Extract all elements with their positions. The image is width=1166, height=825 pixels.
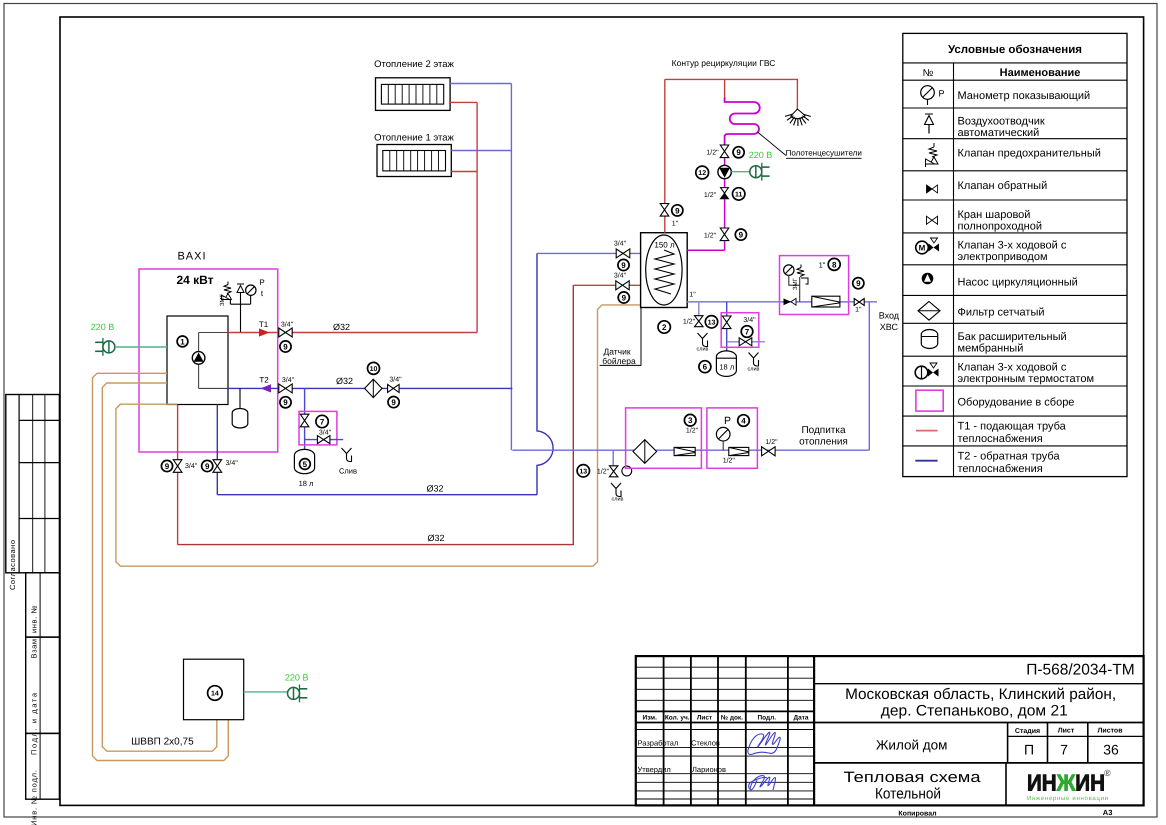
label 1 xbc out bbox=[855, 307, 862, 314]
label 1/2 check11 bbox=[704, 191, 717, 199]
filter box3 bbox=[633, 440, 657, 464]
svg-text:Т2 - обратная труба: Т2 - обратная труба bbox=[958, 451, 1061, 463]
node 13 podpitka bbox=[577, 465, 589, 477]
pipe drop to box7b bbox=[726, 302, 728, 351]
node 8 bbox=[828, 258, 840, 270]
wire rad2 supply red bbox=[450, 101, 477, 103]
svg-text:9: 9 bbox=[165, 462, 170, 471]
svg-text:9: 9 bbox=[739, 231, 744, 240]
node 6 bbox=[699, 361, 711, 373]
svg-text:1/2": 1/2" bbox=[706, 149, 719, 157]
coil in tank bbox=[655, 250, 674, 294]
svg-text:9: 9 bbox=[283, 342, 288, 351]
node 9 coil v1 bbox=[733, 147, 744, 158]
svg-text:150 л: 150 л bbox=[654, 241, 675, 250]
svg-text:7: 7 bbox=[745, 327, 750, 336]
svg-text:Подпитка: Подпитка bbox=[801, 425, 846, 436]
svg-text:полнопроходной: полнопроходной bbox=[958, 221, 1043, 233]
legend text 3-х ходовой электропривод bbox=[958, 240, 1067, 264]
svg-text:Фильтр сетчатый: Фильтр сетчатый bbox=[958, 307, 1045, 319]
valve after filter bbox=[388, 384, 400, 392]
svg-text:Манометр показывающий: Манометр показывающий bbox=[958, 90, 1091, 102]
label 3/4 T1 bbox=[281, 321, 294, 329]
legend table grid bbox=[903, 33, 1127, 476]
logo ИНЖИН bbox=[1027, 768, 1111, 802]
label 220 В controller bbox=[285, 673, 309, 683]
svg-text:9: 9 bbox=[391, 398, 396, 407]
svg-text:Взам. инв. №: Взам. инв. № bbox=[30, 606, 39, 659]
title П 7 36 bbox=[1024, 742, 1119, 758]
legend symbol бак bbox=[921, 329, 937, 348]
label 1/2 coil v1 bbox=[706, 149, 719, 157]
svg-text:Полотенцесушители: Полотенцесушители bbox=[786, 149, 862, 158]
check valve box8 bbox=[784, 298, 797, 305]
legend symbol обратный bbox=[927, 185, 938, 193]
svg-text:BAXI: BAXI bbox=[177, 251, 206, 263]
svg-text:1": 1" bbox=[855, 307, 862, 314]
pipe Ø32 blue bottom bbox=[217, 494, 537, 496]
title Стадия Лист Листов bbox=[1015, 728, 1123, 736]
pipe red to coil bbox=[724, 79, 726, 99]
legend symbol Т1 line bbox=[916, 430, 938, 432]
svg-text:3/4": 3/4" bbox=[226, 459, 239, 467]
pipe red drop bbox=[177, 405, 179, 545]
svg-text:Утвердил: Утвердил bbox=[638, 765, 671, 774]
pipe tank inlet blue bbox=[537, 252, 641, 254]
valve tank blue bbox=[616, 249, 630, 258]
label Слив box7a bbox=[339, 467, 357, 476]
svg-text:12: 12 bbox=[698, 170, 706, 177]
node 1 bbox=[177, 336, 188, 347]
stamp label Инв. № подл. bbox=[30, 770, 39, 825]
meter box4 bbox=[729, 447, 749, 455]
label 220 В boiler bbox=[91, 322, 115, 332]
legend text шаровой bbox=[958, 209, 1043, 233]
boiler internal pipe bbox=[199, 333, 228, 389]
towel dryer coil bbox=[725, 98, 760, 147]
legend symbol насос bbox=[922, 273, 934, 285]
wire rad2 return blue bbox=[450, 83, 511, 85]
svg-text:Стеклов: Стеклов bbox=[691, 739, 720, 748]
svg-text:Кран шаровой: Кран шаровой bbox=[958, 209, 1031, 221]
pipe tank inlet red bbox=[573, 284, 640, 286]
svg-text:Ларионов: Ларионов bbox=[692, 765, 726, 774]
svg-text:9: 9 bbox=[621, 261, 626, 270]
svg-text:13: 13 bbox=[708, 319, 716, 326]
svg-text:2: 2 bbox=[662, 323, 667, 332]
label 3/4 blue drop bbox=[226, 459, 239, 467]
meter box8 bbox=[812, 296, 840, 307]
label 220 В pump12 bbox=[749, 150, 773, 160]
label 3/4 tank red bbox=[614, 272, 627, 280]
svg-text:Клапан 3-х ходовой с: Клапан 3-х ходовой с bbox=[958, 362, 1067, 374]
svg-text:Наименование: Наименование bbox=[1000, 67, 1081, 79]
legend text насос bbox=[958, 277, 1078, 289]
safety valve on boiler bbox=[222, 282, 232, 300]
title Разработал bbox=[638, 739, 720, 748]
wire rad1 return blue bbox=[451, 150, 511, 152]
pipe coil down magenta bbox=[687, 146, 724, 250]
svg-text:Ø32: Ø32 bbox=[333, 322, 350, 332]
node 9 xbc out bbox=[853, 278, 864, 289]
label 1 box8 bbox=[819, 261, 826, 270]
svg-text:Дата: Дата bbox=[793, 715, 808, 722]
svg-text:Ø32: Ø32 bbox=[336, 376, 353, 386]
svg-text:220 В: 220 В bbox=[285, 673, 309, 683]
node 11 bbox=[733, 188, 745, 200]
svg-text:слив: слив bbox=[748, 367, 760, 373]
shower head symbol bbox=[785, 109, 811, 126]
svg-text:Инв. № подл.: Инв. № подл. bbox=[30, 770, 39, 825]
svg-text:Ø32: Ø32 bbox=[426, 484, 443, 494]
label 150 л bbox=[654, 241, 675, 250]
legend text бак bbox=[958, 331, 1067, 355]
node 13 xbc bbox=[705, 316, 717, 328]
filter 10 diamond bbox=[365, 379, 382, 397]
node 9 coil v2 bbox=[735, 229, 746, 240]
svg-text:3/4": 3/4" bbox=[389, 376, 402, 384]
pipe branch to tank5 bbox=[304, 388, 306, 449]
svg-text:Подл. и дата: Подл. и дата bbox=[30, 692, 39, 755]
wire riser supply red bbox=[476, 102, 478, 332]
svg-text:Изм.: Изм. bbox=[643, 715, 658, 722]
legend text 3-х ходовой термостат bbox=[958, 362, 1095, 386]
valve 9 coil lower bbox=[720, 228, 729, 241]
svg-text:5: 5 bbox=[303, 460, 308, 469]
label 3/4 after filter bbox=[389, 376, 402, 384]
svg-text:Листов: Листов bbox=[1097, 728, 1123, 735]
node 14 bbox=[208, 686, 223, 701]
svg-text:ЗМГ: ЗМГ bbox=[219, 293, 226, 306]
arrow T1 bbox=[259, 328, 270, 336]
valve drain box7b bbox=[739, 338, 752, 346]
legend text предохранительный bbox=[958, 148, 1101, 160]
svg-text:Р: Р bbox=[938, 89, 944, 99]
legend col № bbox=[923, 68, 934, 79]
svg-text:1": 1" bbox=[819, 261, 826, 270]
valve xbc out bbox=[854, 299, 864, 306]
svg-text:9: 9 bbox=[205, 462, 210, 471]
equipment box 3 bbox=[626, 408, 702, 468]
svg-text:Отопление 1 этаж: Отопление 1 этаж bbox=[374, 133, 454, 144]
svg-text:1": 1" bbox=[672, 221, 679, 228]
svg-text:3/4": 3/4" bbox=[282, 376, 295, 384]
valve drain box7a bbox=[317, 436, 330, 444]
label Подпитка отопления bbox=[799, 425, 848, 448]
svg-text:дер. Степаньково, дом 21: дер. Степаньково, дом 21 bbox=[881, 703, 1068, 720]
svg-text:7: 7 bbox=[1060, 742, 1068, 758]
node 7a bbox=[316, 415, 328, 427]
valve T1 bbox=[279, 328, 292, 337]
svg-text:М: М bbox=[919, 244, 926, 253]
pipe red riser gvs bbox=[664, 79, 666, 232]
legend symbol 3-х ходовой электропривод bbox=[916, 238, 939, 254]
svg-text:Клапан обратный: Клапан обратный bbox=[958, 180, 1048, 192]
valve in box7a bbox=[300, 414, 309, 427]
svg-text:1/2": 1/2" bbox=[686, 427, 699, 435]
label 1/2 podpitka valve bbox=[765, 438, 778, 446]
svg-text:Р: Р bbox=[259, 278, 264, 287]
signature 1 bbox=[748, 732, 780, 754]
title address line1 bbox=[845, 686, 1116, 703]
node 7b bbox=[741, 326, 753, 338]
svg-text:1: 1 bbox=[180, 337, 185, 346]
svg-text:Т1: Т1 bbox=[259, 320, 269, 329]
svg-text:1/2": 1/2" bbox=[597, 468, 610, 476]
label Копировал bbox=[898, 811, 936, 818]
label 3/4 red drop bbox=[185, 462, 198, 470]
legend symbol шаровой bbox=[927, 216, 938, 224]
title header row labels bbox=[643, 715, 809, 722]
label Контур рециркуляции ГВС bbox=[672, 58, 776, 68]
svg-text:электроприводом: электроприводом bbox=[958, 251, 1048, 263]
valve 13 drain bbox=[695, 316, 704, 327]
svg-text:Вход: Вход bbox=[879, 311, 900, 321]
label 1/2 coil v2 bbox=[704, 232, 717, 240]
svg-text:P: P bbox=[724, 415, 731, 427]
legend symbol предохранительный bbox=[926, 143, 939, 167]
title block grid bbox=[636, 656, 1144, 805]
svg-text:Клапан 3-х ходовой с: Клапан 3-х ходовой с bbox=[958, 240, 1067, 252]
svg-text:7: 7 bbox=[320, 417, 325, 426]
svg-text:Насос циркуляционный: Насос циркуляционный bbox=[958, 277, 1078, 289]
svg-text:1/2": 1/2" bbox=[683, 318, 696, 326]
svg-text:Контур рециркуляции ГВС: Контур рециркуляции ГВС bbox=[672, 58, 776, 68]
equipment box 7b bbox=[721, 313, 759, 348]
label 1/2 drain13 bbox=[683, 318, 696, 326]
svg-text:Лист: Лист bbox=[1058, 728, 1075, 735]
svg-text:бойлера: бойлера bbox=[602, 356, 636, 366]
label Ø32 T1 bbox=[333, 322, 350, 332]
svg-text:14: 14 bbox=[211, 691, 219, 698]
svg-text:Стадия: Стадия bbox=[1015, 728, 1040, 735]
label 3/4 tank blue bbox=[614, 240, 627, 248]
plug 220V pump12 bbox=[750, 163, 770, 181]
boiler expansion vessel bbox=[232, 388, 248, 428]
wire rad1 supply red bbox=[451, 171, 477, 173]
controller box 14 bbox=[184, 659, 244, 720]
svg-text:Бак расширительный: Бак расширительный bbox=[958, 331, 1067, 343]
node 9 red drop bbox=[161, 460, 172, 471]
node 9 tank blue bbox=[618, 259, 629, 270]
svg-text:Подл.: Подл. bbox=[757, 715, 776, 722]
label P t bbox=[259, 278, 264, 298]
node 9 red riser bbox=[672, 205, 683, 216]
label А3 bbox=[1103, 808, 1113, 817]
drain симв box7a bbox=[342, 448, 352, 462]
legend symbol 3-х ходовой термостат bbox=[915, 363, 938, 379]
label Датчик бойлера bbox=[600, 308, 642, 366]
wire cable B tan bbox=[102, 383, 217, 751]
pipe gvs top bbox=[665, 79, 798, 109]
legend symbol воздухоотводчик bbox=[925, 114, 934, 134]
svg-text:слив: слив bbox=[612, 497, 624, 503]
svg-text:Кол. уч.: Кол. уч. bbox=[665, 715, 690, 722]
svg-text:Лист: Лист bbox=[697, 715, 712, 722]
pipe ХВС bbox=[687, 301, 877, 303]
svg-text:8: 8 bbox=[832, 260, 837, 269]
svg-text:Отопление 2 этаж: Отопление 2 этаж bbox=[374, 59, 454, 70]
label 1/2 box3 bbox=[686, 427, 699, 435]
label Т2 bbox=[259, 376, 269, 385]
svg-text:мембранный: мембранный bbox=[958, 343, 1024, 355]
plug 220V controller bbox=[288, 685, 308, 703]
node 10 bbox=[368, 362, 380, 374]
node 9 blue drop bbox=[202, 460, 213, 471]
label P box4 bbox=[724, 415, 731, 427]
svg-text:Копировал: Копировал bbox=[898, 811, 936, 818]
title address line2 bbox=[881, 703, 1068, 720]
svg-text:18 л: 18 л bbox=[719, 363, 734, 372]
pipe podpitka bbox=[512, 449, 869, 451]
tank 150л body bbox=[641, 233, 688, 308]
svg-text:Воздухоотводчик: Воздухоотводчик bbox=[958, 116, 1045, 128]
label Ø32 T2 bbox=[336, 376, 353, 386]
title П-568/2034-ТМ bbox=[1026, 662, 1135, 679]
svg-text:теплоснабжения: теплоснабжения bbox=[958, 433, 1043, 445]
svg-text:9: 9 bbox=[283, 398, 288, 407]
svg-text:Разработал: Разработал bbox=[638, 739, 679, 748]
legend col Наименование bbox=[1000, 67, 1081, 79]
node 9 tank red bbox=[618, 292, 629, 303]
svg-text:3/4": 3/4" bbox=[743, 316, 756, 324]
boiler U1 body bbox=[167, 316, 228, 405]
signature 2 bbox=[749, 776, 776, 790]
svg-text:3/4": 3/4" bbox=[614, 240, 627, 248]
valve 13b bbox=[609, 466, 618, 477]
legend text обратный bbox=[958, 180, 1048, 192]
svg-text:18 л: 18 л bbox=[299, 479, 314, 488]
label 24 кВт bbox=[176, 273, 213, 287]
node 2 bbox=[658, 321, 670, 333]
legend text фильтр bbox=[958, 307, 1045, 319]
node 4 bbox=[738, 415, 750, 427]
pipe drain box7b bbox=[727, 341, 765, 343]
wire cable A tan bbox=[93, 373, 229, 760]
svg-text:1/2": 1/2" bbox=[704, 232, 717, 240]
legend symbol Т2 line bbox=[915, 460, 937, 462]
plug 220V boiler bbox=[95, 338, 115, 356]
pump in boiler bbox=[192, 352, 205, 365]
label 1/2 box4 bbox=[723, 457, 736, 465]
label Отопление 1 этаж bbox=[374, 133, 454, 144]
label 18 л tank5 bbox=[299, 479, 314, 488]
legend text Т1 bbox=[958, 421, 1067, 446]
svg-text:Московская область, Клинский р: Московская область, Клинский район, bbox=[845, 686, 1116, 703]
tank 18л xbc bbox=[716, 351, 736, 377]
svg-text:3/4": 3/4" bbox=[185, 462, 198, 470]
svg-text:11: 11 bbox=[735, 191, 743, 198]
wire 220V boiler bbox=[115, 346, 167, 348]
svg-text:ХВС: ХВС bbox=[880, 322, 899, 332]
legend text воздухоотводчик bbox=[958, 116, 1045, 140]
svg-text:автоматический: автоматический bbox=[958, 127, 1040, 139]
pipe drop to drain13 bbox=[698, 302, 700, 317]
svg-text:А3: А3 bbox=[1103, 808, 1113, 817]
svg-text:П: П bbox=[1024, 742, 1034, 758]
svg-text:Датчик: Датчик bbox=[603, 347, 630, 357]
valve blue drop bbox=[213, 460, 222, 473]
svg-text:П-568/2034-ТМ: П-568/2034-ТМ bbox=[1026, 662, 1135, 679]
equipment box 4 bbox=[707, 408, 758, 468]
radiator Отопление 2 этаж bbox=[376, 78, 451, 111]
pipe T2 blue bbox=[228, 387, 512, 389]
label 3/4 box7a bbox=[319, 429, 332, 437]
label 1 red riser bbox=[672, 221, 679, 228]
svg-text:Ø32: Ø32 bbox=[427, 533, 444, 543]
wire 220V controller bbox=[244, 691, 288, 693]
svg-text:ЗМГ: ЗМГ bbox=[792, 277, 799, 290]
svg-text:4: 4 bbox=[741, 416, 746, 425]
svg-text:1/2": 1/2" bbox=[704, 191, 717, 199]
label BAXI bbox=[177, 251, 206, 263]
label 3/4 box7b bbox=[743, 316, 756, 324]
legend header bbox=[948, 44, 1082, 56]
legend symbol фильтр bbox=[918, 302, 940, 321]
title Тепловая схема bbox=[844, 769, 982, 803]
svg-text:Условные обозначения: Условные обозначения bbox=[948, 44, 1082, 56]
label 1 tank out bbox=[689, 292, 696, 299]
callout line полотенцесушители bbox=[758, 132, 787, 156]
pipe podpitka riser bbox=[868, 302, 870, 450]
svg-text:Инженерные инновации: Инженерные инновации bbox=[1027, 795, 1108, 802]
svg-text:3/4": 3/4" bbox=[614, 272, 627, 280]
title Жилой дом bbox=[876, 738, 948, 753]
svg-text:Жилой дом: Жилой дом bbox=[876, 738, 948, 753]
svg-text:3/4": 3/4" bbox=[281, 321, 294, 329]
node 3 bbox=[684, 414, 696, 426]
svg-text:3: 3 bbox=[688, 416, 693, 425]
svg-text:10: 10 bbox=[370, 366, 378, 373]
label Ø32 blue bottom bbox=[426, 484, 443, 494]
pipe drain box7a bbox=[305, 439, 343, 441]
radiator Отопление 1 этаж bbox=[377, 145, 451, 177]
label Т1 bbox=[259, 320, 269, 329]
node 12 bbox=[696, 166, 709, 179]
pipe T1 red bbox=[228, 332, 477, 334]
svg-text:Тепловая схема: Тепловая схема bbox=[844, 769, 982, 786]
svg-text:теплоснабжения: теплоснабжения bbox=[958, 463, 1043, 475]
label слив 7b bbox=[748, 367, 760, 373]
node 9 T1 bbox=[280, 341, 291, 352]
svg-text:220 В: 220 В bbox=[91, 322, 115, 332]
svg-text:1/2": 1/2" bbox=[765, 438, 778, 446]
pipe drop to drain13b bbox=[612, 450, 614, 466]
legend symbol манометр bbox=[921, 86, 945, 105]
svg-text:Оборудование в сборе: Оборудование в сборе bbox=[958, 397, 1075, 409]
svg-text:36: 36 bbox=[1103, 742, 1119, 758]
pipe tank feed blue with bridge bbox=[537, 253, 553, 494]
valve T2 bbox=[279, 384, 292, 393]
drain symbol 13 bbox=[698, 333, 708, 347]
label ЗМГ boiler bbox=[219, 293, 226, 306]
svg-text:№: № bbox=[923, 68, 934, 79]
legend symbol оборудование bbox=[916, 390, 943, 411]
pump 12 bbox=[718, 165, 731, 178]
svg-text:6: 6 bbox=[703, 363, 708, 372]
svg-text:№ док.: № док. bbox=[721, 715, 743, 722]
label Вход ХВС bbox=[879, 311, 900, 333]
node 9 T2 bbox=[280, 397, 291, 408]
equipment box BAXI magenta bbox=[139, 269, 278, 452]
svg-text:9: 9 bbox=[675, 206, 680, 215]
label ШВВП bbox=[131, 737, 194, 748]
valve 9 coil bbox=[720, 145, 729, 158]
label 1/2 podpitka drain bbox=[597, 468, 610, 476]
stamp label Взам. инв. № bbox=[30, 606, 39, 659]
gauge box4 bbox=[716, 427, 730, 450]
svg-text:9: 9 bbox=[856, 279, 861, 288]
